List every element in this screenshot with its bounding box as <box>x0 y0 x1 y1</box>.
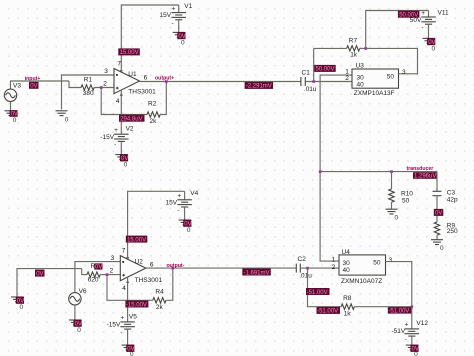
wire output U1 to C1 <box>140 81 301 83</box>
op-amp U2 <box>110 248 163 293</box>
resistor R4 <box>153 289 166 311</box>
svg-text:250: 250 <box>447 228 458 235</box>
svg-text:-15V: -15V <box>107 322 121 329</box>
svg-text:42p: 42p <box>447 196 458 203</box>
svg-text:40: 40 <box>343 267 351 274</box>
svg-text:+: + <box>405 322 409 329</box>
svg-text:0: 0 <box>13 117 17 124</box>
feedback wire pin2 node down and right <box>101 88 147 115</box>
svg-text:-51.00V: -51.00V <box>307 290 328 296</box>
pin4 arrow U2 <box>126 280 129 283</box>
svg-text:-: - <box>120 329 122 336</box>
ground (V2) <box>115 155 127 160</box>
svg-text:THS3001: THS3001 <box>135 277 163 284</box>
ground (V4) <box>179 220 191 225</box>
svg-text:0: 0 <box>130 351 134 356</box>
wire left ground rail <box>17 269 82 297</box>
svg-text:7: 7 <box>122 248 126 255</box>
svg-text:0V: 0V <box>435 211 442 217</box>
voltage label 294.8uV <box>119 115 145 123</box>
svg-text:output+: output+ <box>155 76 174 82</box>
wire V6 to pin3 rail <box>75 262 120 293</box>
wire U4 pin3 right and down <box>386 262 412 329</box>
voltage label 0V (R3 label overlay) <box>94 263 102 270</box>
svg-text:-51V: -51V <box>392 328 406 335</box>
wire pin3 rail and ground branch <box>62 75 115 110</box>
voltage label 50.00V (gate) <box>314 65 336 73</box>
svg-text:0V: 0V <box>95 265 102 271</box>
node output U1 <box>165 80 168 83</box>
svg-text:1k: 1k <box>344 310 352 317</box>
svg-text:+: + <box>177 193 181 200</box>
capacitor C1 <box>301 70 317 94</box>
voltage label 1.296uV <box>413 172 437 180</box>
ground (pin3 rail) <box>56 111 69 124</box>
svg-text:-15V: -15V <box>100 134 114 141</box>
wire junction up to V11 <box>366 11 429 49</box>
svg-text:R1: R1 <box>84 77 93 84</box>
wire C3 to R9 <box>436 196 438 222</box>
node R7/V11 <box>364 47 367 50</box>
svg-text:+: + <box>421 10 425 17</box>
voltage label 0V (V12 ground) <box>410 345 418 353</box>
voltage label 0V (V11 ground) <box>427 38 435 46</box>
svg-text:V1: V1 <box>184 3 192 10</box>
svg-text:-: - <box>114 142 116 149</box>
power V2 <box>100 126 134 155</box>
svg-text:50: 50 <box>402 197 410 204</box>
svg-text:U3: U3 <box>356 63 365 70</box>
svg-text:50: 50 <box>373 259 381 266</box>
node pin2 U2 <box>106 273 109 276</box>
wire output U2 to C2 <box>146 267 296 269</box>
svg-text:U1: U1 <box>128 71 137 78</box>
wire V3 top to input rail <box>11 81 70 89</box>
mosfet U4 <box>332 249 393 285</box>
wire R2 right up to output <box>160 82 166 115</box>
svg-text:V4: V4 <box>190 190 198 197</box>
svg-text:-: - <box>405 336 407 343</box>
svg-text:-51.00V: -51.00V <box>317 309 338 315</box>
svg-text:+: + <box>120 315 124 322</box>
voltage label 0V (C3/R9) <box>434 209 444 217</box>
svg-text:2k: 2k <box>150 118 158 125</box>
power V12 <box>392 320 429 345</box>
voltage label -1.691mV <box>242 269 270 277</box>
pin7 arrow U1 <box>120 70 123 73</box>
svg-text:40: 40 <box>357 81 365 88</box>
svg-text:0V: 0V <box>30 84 37 90</box>
voltage label 0V (left rail) <box>35 270 45 278</box>
svg-text:0: 0 <box>65 117 69 124</box>
voltage label 0V (left rail ground) <box>16 297 24 305</box>
svg-text:30: 30 <box>343 260 351 267</box>
svg-text:R2: R2 <box>148 101 157 108</box>
voltage label -51.00V (left of R8) <box>317 307 341 315</box>
svg-text:+: + <box>114 127 118 134</box>
svg-text:1k: 1k <box>350 52 358 59</box>
voltage label 15.00V (V+) <box>118 48 140 56</box>
wire down to R10 <box>391 172 393 189</box>
wire jog into R1 <box>69 81 81 88</box>
resistor R10 <box>389 189 414 204</box>
ground (R10) <box>386 209 399 221</box>
node C2/R8 <box>306 267 309 270</box>
svg-text:6: 6 <box>144 74 148 81</box>
wire junction right and down to U3 pin3 <box>367 48 417 73</box>
resistor R1 <box>81 77 94 98</box>
wire pin7 up to V4 rail <box>128 191 185 259</box>
svg-text:3: 3 <box>402 69 406 76</box>
wire C2 node down to R8 <box>308 268 342 307</box>
wire jog into R3 <box>82 269 87 275</box>
wire gate rail down to U4 pin1 <box>320 172 339 262</box>
voltage label 0V (input net) <box>29 82 39 90</box>
power V5 <box>107 313 138 345</box>
svg-text:C1: C1 <box>302 70 311 77</box>
ground (V6) <box>69 320 81 325</box>
ground (V5) <box>122 345 134 350</box>
svg-text:0: 0 <box>432 46 436 53</box>
node transducer junction <box>319 170 322 173</box>
voltage label 0V (V2 ground) <box>120 154 128 162</box>
svg-text:V3: V3 <box>13 83 21 90</box>
power V4 <box>166 190 199 220</box>
svg-text:0: 0 <box>20 304 24 311</box>
svg-text:50V: 50V <box>410 17 422 24</box>
resistor R8 <box>341 295 354 318</box>
wire R10 to ground <box>391 202 393 209</box>
svg-text:V6: V6 <box>79 288 87 295</box>
wire R8 to pin3 rail <box>354 306 411 308</box>
wire R3 to pin2 <box>100 274 120 276</box>
wire gate rail down to transducer node <box>319 82 321 172</box>
node R10 junction <box>390 170 393 173</box>
ground (V11) <box>423 38 435 43</box>
svg-text:4: 4 <box>122 285 126 292</box>
svg-text:3: 3 <box>104 68 108 75</box>
svg-text:R7: R7 <box>349 37 358 44</box>
node output U2 <box>172 267 175 270</box>
capacitor C3 <box>433 190 459 204</box>
svg-text:0: 0 <box>124 162 128 169</box>
svg-text:transducer: transducer <box>407 166 434 172</box>
power V11 <box>410 10 449 39</box>
svg-text:2: 2 <box>110 268 114 275</box>
svg-text:V11: V11 <box>438 10 449 17</box>
op-amp U1 <box>103 60 156 105</box>
svg-text:-: - <box>177 207 179 214</box>
wire C1 to U3 pin2 <box>305 81 352 83</box>
pin4 arrow U1 <box>120 93 123 96</box>
svg-text:ZXMN10A07Z: ZXMN10A07Z <box>341 278 382 285</box>
svg-text:-1.691mV: -1.691mV <box>244 270 270 276</box>
wire jog to U3 pin1 <box>320 75 352 81</box>
resistor R2 <box>147 101 160 126</box>
svg-text:-51.00V: -51.00V <box>388 308 409 314</box>
svg-text:ZXMP10A13F: ZXMP10A13F <box>354 90 395 97</box>
svg-text:0: 0 <box>440 245 444 252</box>
svg-text:0: 0 <box>187 227 191 234</box>
svg-text:15.00V: 15.00V <box>120 50 139 56</box>
ground (R9) <box>431 240 444 252</box>
wire V3 bottom to ground <box>10 102 12 111</box>
source V3 <box>4 83 21 102</box>
power V1 <box>160 3 193 32</box>
svg-text:+: + <box>172 5 176 12</box>
svg-text:0: 0 <box>414 351 418 356</box>
svg-text:-: - <box>421 24 423 31</box>
svg-text:-15.00V: -15.00V <box>126 302 147 308</box>
svg-text:294.8uV: 294.8uV <box>120 117 142 123</box>
svg-text:0: 0 <box>77 327 81 334</box>
ground (left rail) <box>11 297 23 302</box>
svg-text:.01u: .01u <box>299 273 312 280</box>
svg-text:.01u: .01u <box>304 86 317 93</box>
svg-text:V12: V12 <box>416 320 428 327</box>
voltage label 0V (V3 ground) <box>10 110 18 118</box>
svg-text:15V: 15V <box>160 12 172 19</box>
voltage label 0V (V6 ground) <box>74 320 82 328</box>
ground (below V3) <box>5 111 17 116</box>
wire R7 to junction <box>360 47 366 49</box>
svg-text:-2.291mV: -2.291mV <box>246 84 272 90</box>
svg-text:3: 3 <box>389 257 393 264</box>
svg-text:15.00V: 15.00V <box>127 237 146 243</box>
svg-text:6: 6 <box>150 261 154 268</box>
feedback wire pin2 node down and right <box>107 275 153 301</box>
node R8/pin3 <box>411 305 414 308</box>
svg-text:-: - <box>172 20 174 27</box>
voltage label 0V (V1 ground) <box>177 32 185 40</box>
svg-text:U2: U2 <box>135 258 144 265</box>
voltage label 15.00V (U2 V+) <box>126 236 148 244</box>
wire R1 to pin2 <box>94 87 114 89</box>
svg-text:2k: 2k <box>156 304 164 311</box>
node pin2 U1 <box>100 86 103 89</box>
voltage label -2.291mV <box>245 82 274 90</box>
svg-text:V2: V2 <box>126 126 134 133</box>
svg-text:3: 3 <box>111 255 115 262</box>
svg-text:50: 50 <box>387 73 395 80</box>
svg-text:R4: R4 <box>155 289 164 296</box>
wire transducer rail right <box>320 171 437 173</box>
voltage label 0V (V4 ground) <box>183 220 191 228</box>
svg-text:380: 380 <box>83 90 94 97</box>
svg-text:2: 2 <box>332 264 336 271</box>
wire V6 bottom to ground <box>74 305 76 320</box>
resistor R3 <box>87 263 100 283</box>
voltage label -51.00V (rail) <box>306 288 330 296</box>
svg-text:C2: C2 <box>298 256 307 263</box>
voltage label 50.00V (V11) <box>398 11 420 19</box>
svg-text:15V: 15V <box>166 199 178 206</box>
svg-text:1: 1 <box>332 256 336 263</box>
source V6 <box>69 288 87 305</box>
wire C2 to U4 pin2 <box>300 267 339 269</box>
ground (V1) <box>173 32 185 37</box>
svg-text:0V: 0V <box>36 271 43 277</box>
wire pin4 down to V2 <box>120 90 122 134</box>
svg-text:30: 30 <box>357 74 365 81</box>
wire transducer to C3 <box>436 172 438 192</box>
wire R9 to ground <box>436 235 438 239</box>
svg-text:4: 4 <box>116 98 120 105</box>
svg-text:620: 620 <box>88 277 99 284</box>
svg-text:2: 2 <box>103 81 107 88</box>
svg-text:1.296uV: 1.296uV <box>414 174 436 180</box>
svg-text:2: 2 <box>345 75 349 82</box>
capacitor C2 <box>296 256 312 280</box>
node C1/R7 <box>312 80 315 83</box>
wire R4 right up to output <box>166 268 173 300</box>
mosfet U3 <box>345 63 406 97</box>
voltage label 0V (V5 ground) <box>126 345 134 353</box>
wire pin7 up to V1 rail <box>121 5 178 72</box>
wire into R7 <box>314 47 347 49</box>
svg-text:THS3001: THS3001 <box>128 89 156 96</box>
svg-text:0: 0 <box>395 215 399 222</box>
wire R7 branch vertical <box>313 48 315 81</box>
svg-text:R8: R8 <box>343 295 352 302</box>
svg-text:0: 0 <box>181 40 185 47</box>
resistor R9 <box>434 222 458 235</box>
svg-text:50.00V: 50.00V <box>316 67 335 73</box>
pin7 arrow U2 <box>126 257 129 260</box>
svg-text:input+: input+ <box>25 76 41 82</box>
resistor R7 <box>347 37 360 58</box>
ground (V12) <box>406 345 418 350</box>
voltage label -51.00V (pin3) <box>388 307 412 315</box>
wire pin4 down to V5 <box>127 277 129 322</box>
voltage label -15.00V (pin4/V5) <box>125 301 148 309</box>
svg-text:U4: U4 <box>342 249 351 256</box>
svg-text:output-: output- <box>167 263 185 269</box>
svg-text:V5: V5 <box>129 313 137 320</box>
